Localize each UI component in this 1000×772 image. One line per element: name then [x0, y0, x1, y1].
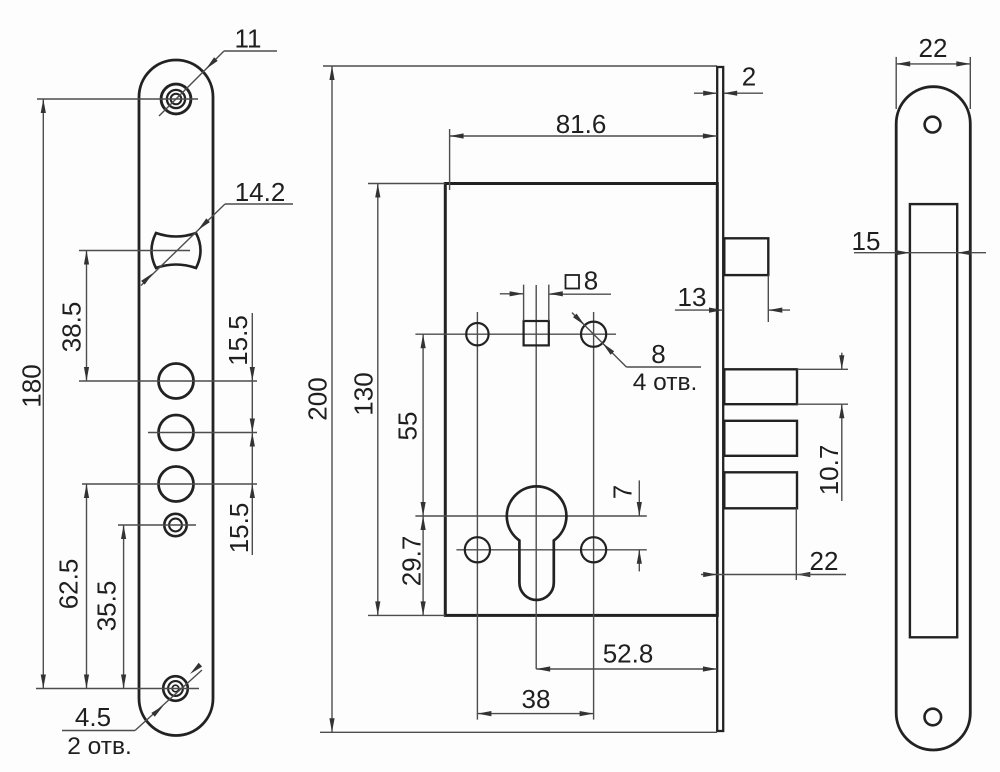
svg-text:22: 22: [919, 33, 948, 63]
middle view: upper right hole: [581, 322, 606, 347]
svg-text:2: 2: [742, 62, 756, 92]
left view: bottom screw hole (countersunk, 4.5): [163, 676, 188, 701]
right view: bottom screw hole: [925, 709, 942, 726]
svg-text:11: 11: [235, 24, 262, 54]
middle view: center line vertical through left hole: [476, 312, 478, 720]
middle view: extension line below deadbolt 3: [795, 508, 797, 580]
middle view: dimension 8 for square hole: [500, 285, 563, 321]
right view: top screw hole: [925, 117, 941, 133]
middle view: faceplate strip (edge-on, 2mm): [717, 67, 723, 731]
middle view: extension line at body bottom-left: [368, 614, 445, 616]
middle view: deadbolt 1: [724, 369, 797, 404]
left view: dimension 35.5: [121, 525, 126, 689]
left view: dimension 62.5: [84, 484, 89, 689]
left view: small countersunk hole (upper of the 2): [164, 514, 186, 536]
middle view: center line through upper holes: [415, 333, 616, 335]
left view: dimension 38.5: [84, 251, 89, 382]
svg-text:7: 7: [607, 485, 637, 499]
middle view: dimension 10.7: [839, 353, 844, 501]
left view: leader line for label 11: [159, 51, 277, 116]
middle view: lower right fixing hole: [581, 537, 606, 562]
svg-text:2 отв.: 2 отв.: [67, 733, 132, 760]
left view: faceplate outline (stadium 180mm plate): [139, 60, 213, 736]
left view: extension line at small countersunk hole: [118, 524, 196, 526]
left view: extension line at bolt hole 3 center: [82, 483, 257, 485]
middle view: extension line below latch bolt: [767, 275, 769, 322]
left view: extension line at bottom hole center: [36, 688, 199, 690]
middle view: extension line at faceplate top: [323, 65, 717, 67]
middle view: label square-8 with underline: [549, 266, 611, 296]
middle view: extension line at body top-left: [368, 183, 445, 185]
left view: extension line at spindle hole center: [79, 250, 190, 252]
left view: dimension line 15.5 pair (right side): [250, 313, 255, 555]
middle view: latch bolt: [724, 238, 768, 275]
svg-text:35.5: 35.5: [91, 581, 121, 632]
svg-text:55: 55: [392, 412, 422, 441]
middle view: center line vertical through right hole: [593, 312, 595, 720]
left view: extension line at bolt hole 2 center: [148, 432, 257, 434]
right view: inner cutout rectangle: [910, 204, 957, 637]
middle view: extension line for 81.6 (left): [449, 129, 451, 190]
svg-text:180: 180: [16, 364, 46, 407]
left view: top screw hole (countersunk, dia 11): [161, 84, 191, 114]
svg-text:15: 15: [852, 226, 881, 256]
middle view: center line through cylinder: [415, 515, 646, 517]
middle view: lower left fixing hole: [465, 537, 490, 562]
svg-text:22: 22: [810, 546, 839, 576]
svg-text:14.2: 14.2: [235, 177, 286, 207]
left view: extension line at top hole center: [37, 98, 198, 100]
middle view: dimension 22 (bolt throw): [701, 572, 846, 577]
middle view: dimension 29.7: [421, 516, 426, 615]
left view: bolt hole 3: [159, 467, 194, 502]
middle view: dimension 200: [329, 66, 334, 732]
svg-text:13: 13: [678, 282, 707, 312]
svg-text:8: 8: [584, 266, 598, 296]
right view: strike plate outline: [896, 87, 970, 750]
svg-text:15.5: 15.5: [223, 315, 253, 366]
svg-text:8: 8: [651, 339, 665, 369]
right view: extension lines for 22: [895, 57, 897, 109]
svg-text:10.7: 10.7: [814, 445, 844, 496]
middle view: dimension 55: [421, 334, 426, 516]
right view: dimension 22: [896, 61, 970, 66]
left view: dimension 180: [41, 99, 46, 689]
left view: leader line for label 4.5 / 2 holes: [62, 663, 202, 731]
svg-text:52.8: 52.8: [603, 639, 654, 669]
svg-text:15.5: 15.5: [224, 503, 254, 554]
svg-text:38.5: 38.5: [56, 302, 86, 353]
svg-text:4 отв.: 4 отв.: [633, 369, 698, 396]
left view: bolt hole 1: [159, 364, 194, 399]
middle view: lock body box: [445, 184, 717, 616]
middle view: center line vertical through square hole: [535, 285, 537, 669]
svg-text:200: 200: [302, 377, 332, 420]
middle view: deadbolt 2: [724, 421, 797, 456]
svg-text:130: 130: [348, 372, 378, 415]
svg-text:38: 38: [522, 684, 551, 714]
middle view: dimension 130: [375, 184, 380, 616]
middle view: extension line at faceplate bottom: [320, 731, 717, 733]
middle view: deadbolt 3: [724, 472, 797, 508]
middle view: dimension 2 (faceplate thickness): [694, 91, 763, 96]
middle view: upper left hole: [466, 323, 488, 345]
left view: bolt hole 2: [159, 415, 194, 450]
left view: leader line for label 14.2: [141, 204, 293, 286]
middle view: euro cylinder hole: [507, 486, 567, 600]
middle view: dimension 13: [675, 308, 790, 313]
middle view: center line through lower small holes: [456, 549, 646, 551]
left view: extension line at bolt hole 1 center: [79, 380, 257, 382]
right view: dimension 15: [854, 250, 986, 255]
svg-text:81.6: 81.6: [556, 109, 607, 139]
svg-text:62.5: 62.5: [53, 559, 83, 610]
middle view: dimension 7: [637, 480, 642, 571]
middle view: leader for 8 / 4 holes: [572, 313, 701, 367]
svg-text:29.7: 29.7: [396, 536, 426, 587]
middle view: square follower hole 8x8: [524, 321, 549, 345]
left view: spindle hole (waisted square, 14.2): [152, 233, 201, 268]
middle view: dimension 81.6: [450, 133, 717, 138]
middle view: dimension 38: [477, 711, 593, 716]
svg-text:4.5: 4.5: [75, 702, 111, 732]
middle view: dimension 52.8: [536, 666, 717, 671]
middle view: extension lines for 10.7: [797, 368, 848, 370]
